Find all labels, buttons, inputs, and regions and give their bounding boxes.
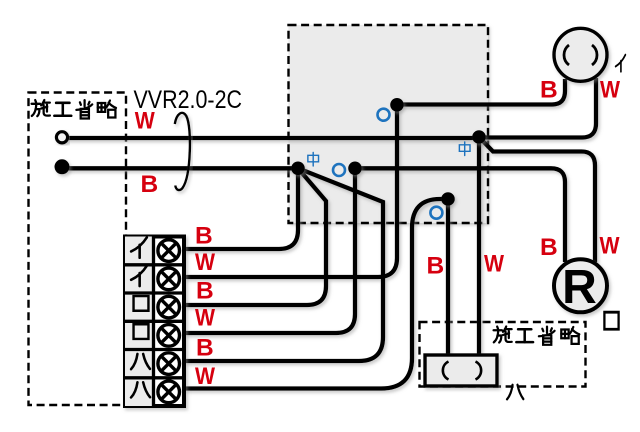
svg-text:B: B	[196, 278, 214, 305]
svg-text:W: W	[600, 233, 621, 260]
svg-text:W: W	[484, 250, 505, 277]
svg-text:R: R	[562, 261, 597, 314]
svg-text:W: W	[135, 108, 156, 135]
svg-text:B: B	[540, 76, 558, 103]
svg-text:B: B	[141, 171, 159, 198]
svg-text:W: W	[195, 363, 216, 390]
svg-text:B: B	[427, 253, 445, 280]
svg-text:W: W	[195, 249, 216, 276]
svg-text:W: W	[600, 76, 621, 103]
svg-text:W: W	[195, 305, 216, 332]
svg-text:B: B	[540, 234, 558, 261]
svg-text:B: B	[195, 223, 213, 250]
svg-text:B: B	[196, 334, 214, 361]
